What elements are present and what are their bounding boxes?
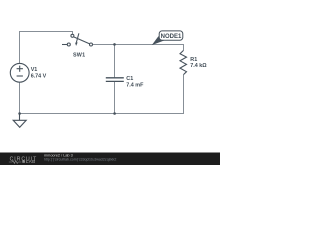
svg-text:LAB: LAB bbox=[26, 159, 35, 164]
svg-text:6.74 V: 6.74 V bbox=[31, 73, 47, 79]
svg-text:NODE1: NODE1 bbox=[161, 34, 182, 40]
svg-text:C1: C1 bbox=[126, 76, 133, 82]
svg-text:7.4 kΩ: 7.4 kΩ bbox=[190, 63, 207, 69]
svg-text:htlp:ƒƒcircuitlab.comƒc33qcb2u: htlp:ƒƒcircuitlab.comƒc33qcb2u3wa32zq8xk… bbox=[44, 158, 116, 162]
svg-text:SW1: SW1 bbox=[73, 52, 85, 58]
svg-text:V1: V1 bbox=[31, 67, 38, 73]
svg-text:7.4 mF: 7.4 mF bbox=[126, 82, 144, 88]
